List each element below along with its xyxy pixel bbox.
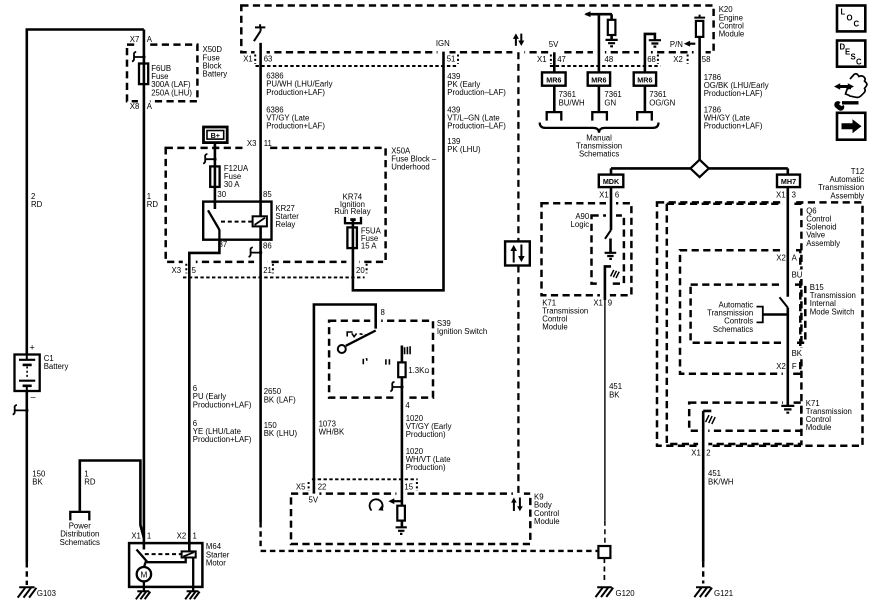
svg-text:WH/BK: WH/BK (319, 428, 345, 437)
svg-text:PK (LHU): PK (LHU) (447, 145, 481, 154)
svg-text:Mode Switch: Mode Switch (810, 307, 855, 316)
svg-text:BK: BK (609, 390, 620, 399)
svg-text:3: 3 (792, 191, 796, 200)
svg-text:22: 22 (318, 482, 327, 491)
svg-text:X2: X2 (177, 532, 187, 541)
svg-text:Production+LAF): Production+LAF) (704, 89, 763, 98)
svg-text:15: 15 (404, 482, 413, 491)
svg-text:G103: G103 (37, 589, 56, 598)
svg-text:X1: X1 (776, 191, 786, 200)
svg-text:BK (LHU): BK (LHU) (264, 429, 298, 438)
svg-text:X3: X3 (247, 139, 257, 148)
svg-text:X5: X5 (296, 482, 306, 491)
svg-text:250A (LHU): 250A (LHU) (151, 88, 192, 97)
svg-text:5: 5 (192, 266, 197, 275)
svg-text:Production+LAF): Production+LAF) (266, 122, 325, 131)
svg-text:30 A: 30 A (224, 180, 240, 189)
svg-text:Underhood: Underhood (391, 163, 430, 172)
svg-text:S: S (851, 53, 856, 62)
svg-text:11: 11 (264, 139, 272, 148)
svg-text:X1: X1 (691, 448, 701, 457)
svg-text:BK/WH: BK/WH (708, 477, 734, 486)
svg-text:86: 86 (263, 242, 272, 251)
svg-text:O: O (847, 14, 853, 23)
svg-text:85: 85 (263, 190, 272, 199)
svg-text:G120: G120 (616, 589, 636, 598)
svg-text:Production): Production) (406, 430, 446, 439)
svg-text:30: 30 (217, 190, 226, 199)
svg-text:51: 51 (447, 55, 456, 64)
svg-text:20: 20 (356, 266, 365, 275)
svg-text:C: C (856, 58, 862, 67)
svg-text:RD: RD (84, 477, 96, 486)
svg-text:BK: BK (32, 477, 43, 486)
svg-text:1: 1 (193, 532, 197, 541)
svg-text:Assembly: Assembly (830, 191, 864, 200)
svg-text:M: M (140, 570, 147, 579)
svg-text:L: L (841, 8, 846, 17)
svg-text:Assembly: Assembly (806, 239, 840, 248)
svg-text:+: + (30, 343, 35, 353)
svg-text:Production+LAF): Production+LAF) (193, 400, 252, 409)
svg-text:X1: X1 (593, 298, 603, 307)
svg-text:Logic: Logic (571, 220, 590, 229)
svg-text:MR6: MR6 (546, 75, 561, 84)
svg-text:A: A (147, 102, 153, 111)
svg-text:87: 87 (219, 240, 228, 249)
svg-text:Battery: Battery (44, 362, 69, 371)
svg-text:P/N: P/N (670, 40, 683, 49)
svg-text:X8: X8 (130, 102, 140, 111)
svg-text:Schematics: Schematics (60, 538, 100, 547)
svg-text:58: 58 (702, 55, 711, 64)
svg-text:1: 1 (147, 532, 151, 541)
svg-text:RD: RD (147, 200, 159, 209)
svg-text:63: 63 (264, 55, 273, 64)
svg-text:E: E (845, 48, 850, 57)
svg-text:G121: G121 (714, 589, 733, 598)
svg-text:21: 21 (263, 266, 272, 275)
svg-text:Production+LAF): Production+LAF) (266, 88, 325, 97)
svg-text:C: C (854, 20, 860, 29)
svg-text:MH7: MH7 (781, 177, 796, 186)
svg-text:F: F (792, 362, 797, 371)
svg-text:4: 4 (405, 401, 410, 410)
svg-text:OG/GN: OG/GN (649, 98, 675, 107)
svg-text:MDK: MDK (603, 177, 620, 186)
svg-text:Relay: Relay (275, 220, 295, 229)
svg-text:IGN: IGN (436, 39, 450, 48)
svg-text:MR6: MR6 (637, 75, 652, 84)
svg-text:Ω: Ω (425, 368, 430, 375)
svg-text:Module: Module (719, 30, 745, 39)
svg-text:Module: Module (542, 323, 568, 332)
svg-text:9: 9 (608, 298, 612, 307)
svg-text:X2: X2 (776, 253, 786, 262)
svg-text:Schematics: Schematics (579, 150, 619, 159)
svg-text:5V: 5V (549, 40, 559, 49)
svg-text:68: 68 (647, 55, 656, 64)
svg-text:X3: X3 (172, 266, 182, 275)
svg-text:Production–LAF): Production–LAF) (447, 122, 506, 131)
svg-text:Run Relay: Run Relay (334, 207, 371, 216)
svg-text:Schematics: Schematics (713, 325, 753, 334)
svg-text:Production+LAF): Production+LAF) (704, 122, 763, 131)
svg-text:Production–LAF): Production–LAF) (447, 88, 506, 97)
svg-text:X2: X2 (776, 362, 786, 371)
svg-text:X1: X1 (243, 55, 253, 64)
svg-text:BK (LAF): BK (LAF) (264, 395, 296, 404)
svg-text:RD: RD (31, 200, 43, 209)
svg-text:BU: BU (792, 270, 803, 279)
svg-text:A: A (147, 35, 153, 44)
svg-text:A: A (792, 253, 798, 262)
svg-text:2: 2 (706, 448, 710, 457)
svg-text:X2: X2 (673, 55, 683, 64)
svg-text:6: 6 (615, 191, 619, 200)
svg-text:BK: BK (792, 349, 803, 358)
svg-text:GN: GN (604, 98, 616, 107)
svg-text:Module: Module (534, 517, 560, 526)
svg-text:1.3K: 1.3K (408, 366, 425, 375)
svg-text:47: 47 (557, 55, 566, 64)
svg-text:Motor: Motor (206, 558, 226, 567)
svg-text:Production): Production) (406, 463, 446, 472)
svg-text:Battery: Battery (203, 70, 228, 79)
svg-text:48: 48 (605, 55, 614, 64)
svg-text:X1: X1 (537, 55, 547, 64)
svg-text:5V: 5V (309, 496, 319, 505)
svg-text:Ignition Switch: Ignition Switch (437, 327, 487, 336)
svg-text:X7: X7 (130, 35, 140, 44)
svg-text:X1: X1 (131, 532, 141, 541)
svg-text:Production+LAF): Production+LAF) (193, 435, 252, 444)
svg-text:X1: X1 (599, 191, 609, 200)
svg-text:MR6: MR6 (591, 75, 606, 84)
svg-text:BU/WH: BU/WH (559, 98, 585, 107)
svg-text:8: 8 (381, 308, 385, 317)
svg-text:Module: Module (806, 423, 832, 432)
svg-text:–: – (31, 392, 36, 402)
svg-text:15 A: 15 A (361, 241, 377, 250)
svg-text:B+: B+ (211, 131, 220, 140)
